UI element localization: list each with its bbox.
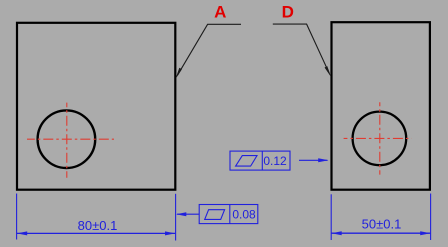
leader arrowhead (right) for 0.12 frame: [318, 158, 328, 162]
dimension 80±0.1 left extension line: [16, 194, 18, 240]
leader arrowhead (left) for 0.08 frame: [176, 212, 186, 216]
right hole vertical centerline: [379, 102, 381, 174]
svg-text:0.12: 0.12: [263, 154, 287, 168]
svg-text:50±0.1: 50±0.1: [362, 216, 402, 231]
datum label A (red): [214, 3, 226, 22]
flatness symbol (parallelogram) in 0.08 frame: [205, 210, 225, 220]
dimension 80±0.1 left arrowhead: [17, 231, 27, 235]
dimension 80±0.1 right extension line: [175, 194, 177, 241]
right hole (circle): [353, 112, 407, 166]
left hole horizontal centerline: [27, 138, 114, 140]
leader line for A: [178, 24, 242, 75]
dimension text 80±0.1: [78, 218, 118, 233]
svg-text:D: D: [282, 3, 294, 22]
dimension 80±0.1 line: [17, 232, 175, 234]
dimension 80±0.1 right arrowhead: [165, 231, 175, 235]
svg-text:0.08: 0.08: [232, 207, 256, 221]
left hole vertical centerline: [66, 103, 68, 178]
leader line for D: [273, 24, 329, 73]
svg-text:A: A: [214, 3, 226, 22]
leader arrowhead for D: [325, 67, 330, 76]
dimension 50±0.1 line: [332, 232, 431, 234]
dimension 50±0.1 right arrowhead: [420, 231, 430, 235]
right hole horizontal centerline: [344, 137, 412, 139]
leader arrowhead for A: [176, 68, 181, 77]
left hole (circle): [38, 110, 96, 168]
datum label D (red): [282, 3, 294, 22]
right block outline: [332, 22, 430, 190]
tolerance value 0.12: [263, 154, 287, 168]
leader from 0.08 frame to 80 dimension extension line: [177, 213, 199, 215]
flatness symbol (parallelogram) in 0.12 frame: [236, 156, 257, 167]
leader from 0.12 frame to right block edge: [299, 159, 328, 161]
flatness feature control frame 0.08 box: [199, 205, 258, 224]
dimension 50±0.1 left arrowhead: [331, 231, 341, 235]
svg-text:80±0.1: 80±0.1: [78, 218, 118, 233]
dimension 50±0.1 right extension line: [430, 194, 432, 241]
dimension 50±0.1 left extension line: [330, 194, 332, 240]
tolerance value 0.08: [232, 207, 256, 221]
flatness feature control frame 0.12 box: [230, 151, 290, 170]
left block outline: [17, 23, 175, 190]
dimension text 50±0.1: [362, 216, 402, 231]
